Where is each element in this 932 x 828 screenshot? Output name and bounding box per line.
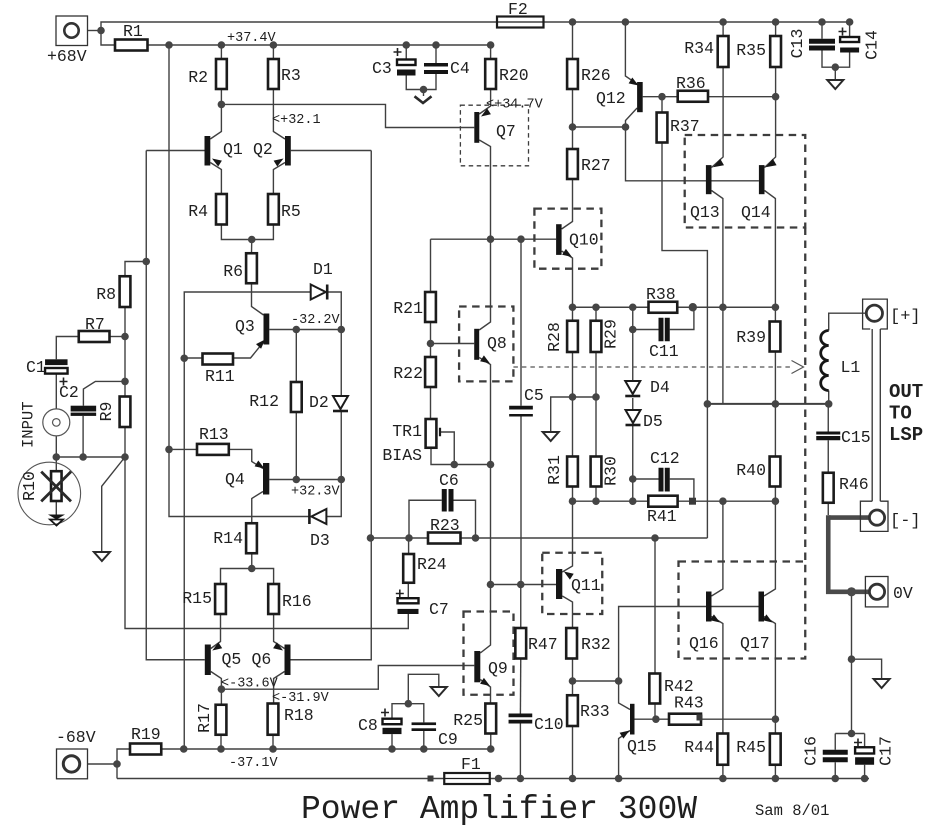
wire R8 R7 join [124,307,126,337]
arrow Q4 base [255,461,265,469]
svg-text:<-31.9V: <-31.9V [272,691,330,706]
resistor R19 [130,725,161,755]
capacitor C9 [412,722,458,749]
node D2 D3 [337,476,345,484]
wire R28 top stub [572,307,574,321]
svg-text:R2: R2 [188,68,208,87]
dashed coupling line from Q8 box with arrow [513,361,803,374]
wire Q5 node to Q9 base [221,666,474,690]
wire R18 bottom stub [272,735,274,749]
svg-text:R8: R8 [96,285,116,304]
node R26 R27 [569,123,577,131]
wire Q14 collector down [765,191,776,308]
svg-text:Q5: Q5 [222,650,242,669]
wire R32 R33 join [572,659,574,696]
wire R42 bottom to Q15 [654,704,656,720]
node R28 gnd [569,393,577,401]
arrow Q2 emitter [274,159,284,167]
wire Q8 base [431,343,475,345]
node C4 top [432,41,440,49]
resistor R20 [485,59,529,89]
wire -68V terminal stub [87,763,117,765]
transistor Q7 [474,112,516,143]
wire R7 right stub [110,336,126,338]
label D5 [643,412,663,431]
node R19 out [180,745,188,753]
node R42 top [651,534,659,542]
resistor R8 [96,276,130,307]
wire C17 top stub [864,734,866,748]
wire R44 bottom stub [722,765,724,779]
wire speaker cable right [879,329,881,501]
node R17 bottom [217,745,225,753]
transistor Q2 [253,136,291,166]
diode D1 [311,285,328,300]
terminal -68V [57,749,88,779]
arrow Q8 emitter [480,355,490,363]
capacitor C13 [788,29,835,59]
svg-text:Q10: Q10 [569,231,599,250]
node C6 right [472,534,480,542]
wire R12 bottom stub [295,412,297,480]
capacitor C1 [26,358,68,377]
node R36 R35 line [772,93,780,101]
node Q16 base branch [615,677,623,685]
wire Q15 collector riser [619,681,630,710]
terminal 0V [865,577,888,607]
node C3 C4 gnd [420,86,428,94]
node D4 top [629,303,637,311]
node input terminal [53,453,61,461]
node C5 top [517,235,525,243]
svg-text:L1: L1 [841,358,861,377]
svg-text:C10: C10 [534,715,564,734]
resistor R26 [567,59,611,89]
wire Q7 collector down [479,140,490,239]
wire +68V terminal stub [87,30,101,32]
resistor R40 [736,457,780,487]
wire Q5 collector down [211,672,222,705]
terminal (-) output [860,501,888,531]
wire Q10 base wire [431,238,557,240]
arrow Q12 emitter [629,78,639,86]
wire C11 left leg [633,329,659,331]
wire Q11 base wire [491,584,557,586]
wire R21 R22 join [430,322,432,357]
node R32 R33 [569,677,577,685]
resistor R23 [428,516,461,544]
wire R35 to Q14 emitter [765,67,776,168]
node R44 rail [719,775,727,783]
wire Q16 collector [712,501,723,596]
resistor R3 [268,59,301,89]
wire C5 to Q11 base [520,417,522,585]
wire Q4 collector line [269,479,341,481]
transistor Q5 [205,645,242,676]
node Q12 emitter rail [622,18,630,26]
wire R6 top stub [251,240,253,254]
svg-text:R25: R25 [453,711,483,730]
ground near C3 C4 [415,96,432,103]
transistor Q8 [474,329,507,360]
wire C15 chain [827,404,829,432]
wire C3 C4 ground join [406,74,436,90]
wire R11 left stub [184,357,202,359]
svg-text:<-33.6V: <-33.6V [221,677,279,692]
node long vertical feedback [367,534,375,542]
wire Q10 emitter down [562,251,573,307]
node F2 out R26 [569,18,577,26]
capacitor C6 [439,471,459,512]
svg-text:R35: R35 [736,41,766,60]
wire C8 bottom stub [391,734,393,749]
wire Q11 emitter up [562,501,572,572]
wire D2 chain [340,330,342,397]
wire R7 to C1 [56,337,78,360]
resistor R7 [79,315,110,342]
node Q10 emitter R28 [569,303,577,311]
wire D5 bottom [632,425,634,502]
wire C1 to input terminal [55,374,57,409]
svg-text:R21: R21 [393,299,423,318]
resistor R12 [249,382,301,412]
transistor Q1 [205,136,243,166]
svg-text:C13: C13 [788,29,807,59]
dashed box around Q11 [542,553,602,614]
wire R10 bottom stub [55,501,57,515]
svg-text:TR1: TR1 [392,422,422,441]
svg-text:C6: C6 [439,471,459,490]
wire R2 top stub [220,45,222,59]
node D5 bottom [629,497,637,505]
svg-text:0V: 0V [893,584,913,603]
svg-text:R12: R12 [249,392,279,411]
terminal INPUT [20,401,70,448]
wire C9 bottom stub [423,731,425,749]
wire D4 D5 mid [632,398,634,411]
svg-text:R6: R6 [223,262,243,281]
wire R37 top stub [661,97,663,113]
node R11 left [180,354,188,362]
label LSP [889,424,923,446]
wire R47 top stub [520,585,522,629]
svg-text:R24: R24 [417,555,447,574]
resistor R42 [649,674,693,704]
wire C16 bottom stub [834,762,836,778]
wire speaker cable left [871,329,873,501]
svg-text:+32.3V: +32.3V [291,485,341,500]
wire C3 top stub [405,45,407,60]
node 0V gnd branch [848,655,856,663]
wire L1 top feed [829,313,867,330]
wire R31 bottom stub [572,487,574,502]
svg-text:Q12: Q12 [596,89,626,108]
inductor L1 [821,331,861,391]
svg-text:C8: C8 [358,716,378,735]
wire -68V bottom rail [117,778,869,780]
svg-text:<+32.1: <+32.1 [272,113,321,128]
capacitor C4 [424,59,470,78]
node C16 C17 top [848,730,856,738]
resistor R33 [567,695,610,726]
resistor R43 [669,694,704,725]
svg-text:C14: C14 [863,30,882,60]
wire R15 feed [221,569,252,585]
wire R39 branch [774,307,776,321]
svg-text:Q13: Q13 [690,203,720,222]
wire R45 bottom stub [774,765,776,779]
node input C2 [79,453,87,461]
wire gnd branch right [852,659,882,679]
capacitor C8 [358,709,402,736]
dashed link line Q14 box to Q16 box [804,228,806,562]
wire R1 node vertical to D3 [169,45,309,517]
node R34 top [719,18,727,26]
node C13 top [818,18,826,26]
wire R40 top stub [774,404,776,457]
node Q13 collector out [719,303,727,311]
wire Q12 base [643,96,678,98]
node 0V thick wire [847,587,856,596]
arrow Q10 emitter [562,249,572,257]
label +37.4V [227,31,277,46]
wire Q1 collector to Q7 base [221,104,474,127]
svg-text:R16: R16 [282,592,312,611]
transistor Q15 [627,704,657,756]
wire Q16 emitter to R44 [712,617,723,734]
wire -68V riser [117,749,130,779]
svg-text:C9: C9 [438,730,458,749]
capacitor C3 [372,48,416,78]
wire negative rail R19 to R25 [161,748,491,750]
resistor R24 [403,554,447,583]
resistor R15 [182,584,226,614]
wire R32 node wire [573,680,619,682]
wire R25 bottom stub [490,734,492,750]
arrow Q1 emitter [212,159,222,167]
svg-text:R23: R23 [430,516,460,535]
wire TR1 wiper [440,432,454,465]
svg-text:Q6: Q6 [252,650,272,669]
wire Q17 emitter to R45 [764,617,775,734]
svg-text:C7: C7 [429,600,449,619]
wire R38 node wire [573,306,776,308]
node Q1 collector [218,101,226,109]
node output rail R37 [704,400,712,408]
wire R20 top stub [490,45,492,59]
transistor Q16 [689,592,719,654]
label OUT [889,381,923,403]
resistor R37 [657,113,700,143]
wire R1 feed [101,31,491,46]
node C17 rail [861,775,869,783]
wire R28 R29 gnd join [551,397,596,432]
transistor Q17 [740,592,770,654]
pad F1 left [428,776,434,782]
svg-text:R37: R37 [670,117,700,136]
node R7 R8 [121,333,129,341]
node Q4 collector R12 [293,476,301,484]
ground near 0V [874,679,890,688]
wire L1 bottom stub [828,391,830,404]
resistor R2 [188,59,227,89]
pad R41 right [689,498,696,505]
dashed box around Q10 [534,209,601,269]
node R1 out [165,41,173,49]
wire long vertical to Q6 base [291,151,372,660]
label C1 fix [0,0,1,1]
wire D3 anode join [327,480,341,517]
wire Q17 collector [764,501,775,596]
wire R47 to C10 [519,659,521,714]
wire Q4 emitter to R14 [252,492,263,524]
svg-text:R46: R46 [839,475,869,494]
arrow Q15 emitter [620,731,630,739]
wire thick minus link [828,515,869,520]
capacitor C5 [509,386,544,417]
node C11 left [629,326,637,334]
label D3 [310,531,330,550]
svg-text:R28: R28 [545,322,564,352]
svg-text:R14: R14 [213,529,243,548]
node C12 left [629,475,637,483]
wire R13 feed [169,448,197,450]
capacitor C14 [839,28,882,60]
wire Q15 base wire [635,718,670,720]
node R8 top [142,258,150,266]
svg-text:C5: C5 [524,386,544,405]
svg-text:C12: C12 [650,449,680,468]
arrow Q16 emitter [710,614,720,622]
node C2 top [121,378,129,386]
capacitor C17 [854,736,896,766]
terminal (+) output [863,299,888,329]
node C9 bottom [420,745,428,753]
wire R41 node wire [573,500,776,502]
svg-text:R5: R5 [281,202,301,221]
node Q8 base R21 R22 [427,340,435,348]
capacitor C7 [396,590,449,620]
svg-text:R32: R32 [581,635,611,654]
wire R24 top stub [408,538,410,554]
diode D5 [626,410,641,425]
label <+34.7V [486,98,544,113]
resistor R31 [545,455,578,486]
wire R16 to Q6 emitter [274,614,285,649]
dashed box around Q13 Q14 [685,135,806,228]
transistor Q6 [252,645,291,676]
wire D1 cathode down [327,292,341,330]
resistor R34 [684,36,728,67]
wire C13 C14 ground join [822,51,850,68]
wire R29 to R30 [595,352,597,457]
capacitor C10 [509,714,564,735]
node input R9 [121,453,129,461]
svg-text:+37.4V: +37.4V [227,31,277,46]
wire C16 top stub [834,734,836,750]
wire C6 right leg [454,500,476,538]
resistor R4 [188,194,227,225]
node C14 top [846,18,854,26]
wire R33 bottom stub [572,726,574,779]
arrow Q5 emitter [212,642,222,650]
svg-text:R34: R34 [684,39,714,58]
wire Q15 emitter down [619,731,630,779]
svg-text:R7: R7 [85,315,105,334]
node C8 bottom [388,745,396,753]
svg-text:INPUT: INPUT [20,401,38,448]
label <-33.6V [221,677,279,692]
ground near C13 C14 [827,80,843,89]
label -37.1V [229,756,279,771]
wire R9 segment [124,337,126,397]
label 0V [893,584,913,603]
wire R17 bottom stub [220,735,222,749]
svg-text:Q4: Q4 [225,470,245,489]
node Q5 collector [218,685,226,693]
resistor R16 [268,584,312,614]
svg-text:R11: R11 [205,367,235,386]
arrow Q14 emitter [766,159,777,168]
svg-text:R33: R33 [580,702,610,721]
svg-text:Q8: Q8 [487,334,507,353]
wire R46 bottom stub [827,503,829,515]
wire Q12 emitter [625,22,637,84]
svg-text:R3: R3 [281,66,301,85]
capacitor C2 [59,378,96,416]
node R40 bottom [772,497,780,505]
svg-text:Q16: Q16 [689,634,719,653]
node R29 top [592,303,600,311]
wire input node [56,436,125,457]
node -68V terminal [113,760,121,768]
capacitor C12 [650,449,680,492]
svg-text:R38: R38 [646,285,676,304]
ground R28 R29 [543,432,559,441]
resistor R13 [197,425,229,455]
transistor Q4 [225,463,269,495]
wire R9 bottom stub [124,427,126,457]
terminal +68V [56,16,88,46]
arrow Q3 emitter [256,340,265,349]
svg-text:-68V: -68V [56,728,96,747]
capacitor C15 [816,428,870,447]
svg-text:R31: R31 [545,455,564,485]
node R45 rail [772,775,780,783]
svg-text:F1: F1 [461,755,481,774]
node F1 right [495,775,503,783]
arrow Q11 emitter [564,572,574,580]
fuse F1 [444,755,490,784]
transistor Q12 [596,82,643,112]
node Q14 collector out [772,303,780,311]
svg-text:R20: R20 [499,66,529,85]
svg-text:[+]: [+] [890,308,921,327]
wire C10 bottom stub [519,724,521,779]
wire C13 top stub [821,22,823,39]
node C10 rail [517,775,525,783]
svg-text:Q14: Q14 [741,203,771,222]
svg-text:R30: R30 [602,456,621,486]
resistor R46 [823,473,869,503]
wire R13 to Q4 base [229,449,263,468]
wire Q11 collector down [562,596,572,628]
wire C4 top stub [435,45,437,63]
wire thick zero link [828,515,869,592]
arrow Q6 emitter [273,642,283,650]
arrow Q17 emitter [763,614,773,622]
wire C5 chain [520,239,522,406]
